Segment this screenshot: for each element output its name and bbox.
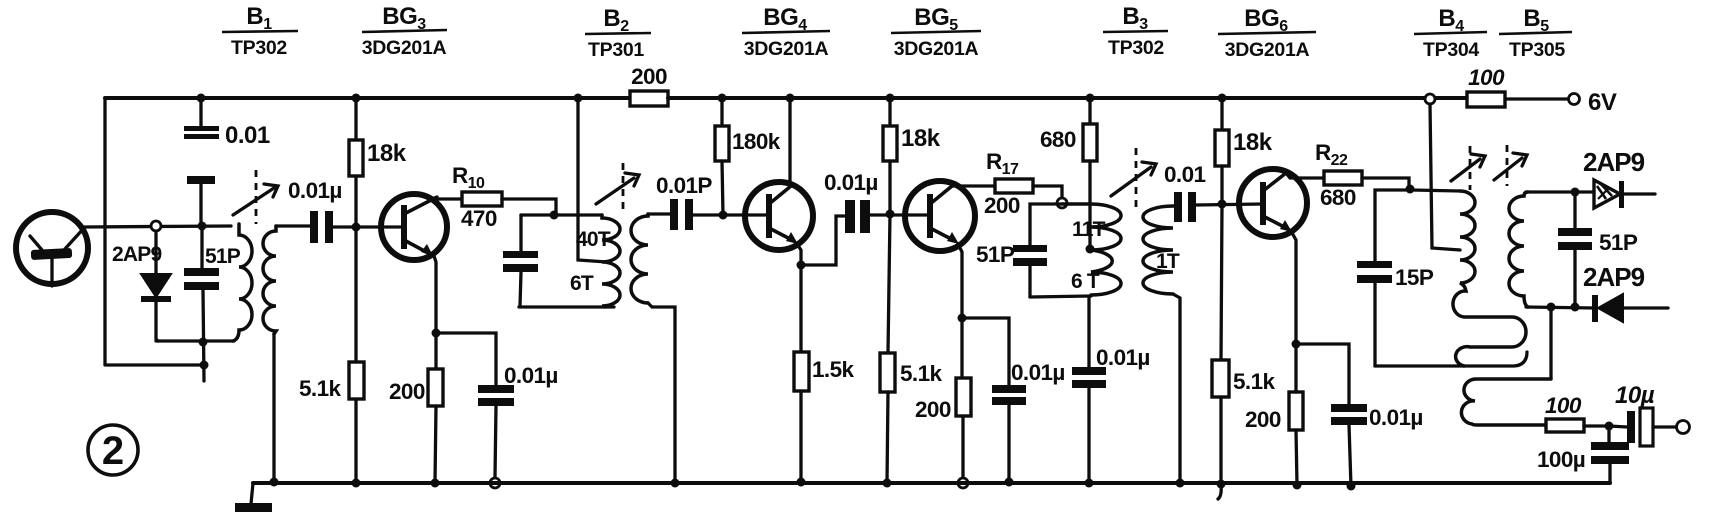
node rail 1090 bbox=[1086, 94, 1095, 103]
svg-text:3DG201A: 3DG201A bbox=[744, 38, 829, 60]
resistor R17 200 bbox=[984, 149, 1033, 218]
svg-text:18k: 18k bbox=[901, 125, 941, 152]
svg-text:6V: 6V bbox=[1588, 89, 1617, 116]
svg-text:6T: 6T bbox=[570, 272, 594, 295]
node B5 bottom bbox=[1547, 303, 1556, 312]
coil B5 secondary output curl bbox=[1461, 379, 1551, 425]
svg-text:TP302: TP302 bbox=[1108, 37, 1164, 59]
svg-text:0.01µ: 0.01µ bbox=[824, 170, 878, 195]
capacitor 0.01u (BG3 emitter bypass) bbox=[478, 363, 558, 477]
svg-text:200: 200 bbox=[631, 64, 667, 89]
node BG4 base bbox=[719, 211, 728, 220]
resistor 200 (series in rail) bbox=[630, 64, 668, 106]
svg-text:5.1k: 5.1k bbox=[299, 376, 341, 401]
svg-text:200: 200 bbox=[984, 193, 1020, 218]
node ground rail 1180 bbox=[1176, 479, 1185, 488]
capacitor 0.01u (BG6 emitter bypass) bbox=[1331, 404, 1423, 487]
svg-text:3DG201A: 3DG201A bbox=[362, 37, 447, 59]
capacitor 10u (output coupling) bbox=[1609, 382, 1690, 446]
node ground rail 1009 bbox=[1005, 478, 1014, 487]
capacitor 0.01 (top left) bbox=[184, 98, 270, 222]
node rail 578 bbox=[574, 94, 583, 103]
node ground rail 1089 bbox=[1085, 479, 1094, 488]
ground bbox=[235, 483, 272, 512]
svg-text:51P: 51P bbox=[205, 245, 241, 268]
trimmer arrow B5 bbox=[1494, 145, 1527, 186]
svg-text:1.5k: 1.5k bbox=[812, 357, 854, 382]
node rail 356 bbox=[352, 94, 361, 103]
wire top supply rail middle bbox=[668, 96, 1467, 100]
node BG5 emitter bbox=[958, 314, 967, 323]
svg-text:10µ: 10µ bbox=[1615, 382, 1655, 409]
svg-text:11T: 11T bbox=[1072, 218, 1106, 241]
wire BG6 collector to R22 bbox=[1286, 173, 1324, 178]
node rail 890 bbox=[886, 94, 895, 103]
wire B4 top lead bbox=[1412, 190, 1460, 191]
label BG6/3DG201A bbox=[1218, 5, 1316, 61]
node rail 201 bbox=[197, 94, 206, 103]
wire R10 to B2 top node bbox=[502, 199, 556, 214]
capacitor 15P bbox=[1357, 261, 1434, 366]
svg-text:0.01: 0.01 bbox=[225, 122, 270, 149]
wire B1 secondary bottom to ground rail bbox=[272, 334, 275, 481]
wire ground stub tail at 1221 bbox=[1218, 485, 1221, 499]
wire BG3 emitter down bbox=[434, 256, 436, 333]
svg-text:180k: 180k bbox=[732, 129, 781, 154]
node ground rail 435 bbox=[431, 479, 440, 488]
transformer B1 primary winding bbox=[233, 224, 252, 341]
resistor R22 680 bbox=[1315, 140, 1362, 210]
wire B3 primary bottom bbox=[1030, 296, 1091, 297]
svg-text:3DG201A: 3DG201A bbox=[1225, 39, 1310, 61]
node BG6 base bbox=[1218, 200, 1227, 209]
capacitor 0.01u (B3 bottom to ground) bbox=[1072, 297, 1150, 483]
resistor 5.1k (BG5 bias lower) bbox=[880, 214, 942, 483]
wire BG3 emitter branch bbox=[436, 333, 496, 386]
node ground rail 274 bbox=[270, 478, 279, 487]
svg-text:18k: 18k bbox=[367, 140, 407, 167]
svg-text:TP302: TP302 bbox=[231, 37, 287, 59]
resistor 680 (rail to B3 tap) bbox=[1040, 98, 1097, 249]
wire BG5 emitter branch bbox=[962, 318, 1009, 386]
capacitor 51P (left) bbox=[184, 226, 241, 381]
label BG3/3DG201A bbox=[362, 3, 447, 59]
node ground rail 675 bbox=[671, 479, 680, 488]
node ground rail 801 bbox=[797, 478, 806, 487]
node 204,343 bbox=[199, 338, 208, 347]
svg-text:0.01µ: 0.01µ bbox=[1369, 405, 1423, 430]
node detector bottom bbox=[1571, 303, 1580, 312]
svg-text:0.01µ: 0.01µ bbox=[1011, 360, 1065, 385]
wire top rail to 6V terminal bbox=[1505, 97, 1567, 100]
resistor 18k (BG5 bias upper) bbox=[883, 98, 941, 214]
node BG6 emitter bbox=[1292, 340, 1301, 349]
transistor BG5 bbox=[905, 181, 975, 251]
node BG4 emitter bbox=[797, 261, 806, 270]
node output bbox=[1605, 422, 1614, 431]
resistor 100 (series in rail) bbox=[1467, 65, 1505, 107]
resistor 5.1k (BG3 bias lower) bbox=[299, 227, 364, 483]
wire B5 bottom to detector bbox=[1526, 307, 1594, 308]
transistor BG4 bbox=[745, 182, 813, 250]
wire left bottom horizontal bbox=[105, 363, 204, 366]
label B3/TP302 bbox=[1103, 3, 1168, 59]
capacitor 51P (B3 tank) bbox=[976, 242, 1047, 297]
svg-text:TP304: TP304 bbox=[1423, 39, 1479, 61]
label B1/TP302 bbox=[222, 3, 298, 59]
svg-text:100µ: 100µ bbox=[1537, 447, 1585, 472]
trimmer arrow B3 bbox=[1111, 148, 1156, 212]
wire BG4 collector to rail bbox=[790, 98, 791, 186]
wire converter collector to B1 bbox=[84, 226, 231, 227]
wire rail tap to B2 tap bbox=[578, 98, 607, 262]
trimmer arrow B4 bbox=[1451, 146, 1485, 190]
transistor BG6 bbox=[1239, 169, 1307, 237]
node BG3 base bbox=[352, 223, 361, 232]
wire BG6 emitter down bbox=[1291, 231, 1296, 344]
svg-text:2AP9: 2AP9 bbox=[112, 243, 161, 266]
svg-text:0.01P: 0.01P bbox=[656, 173, 712, 198]
transformer B2 primary winding 40T/6T bbox=[602, 215, 620, 307]
wire BG4 emitter to coupling cap bbox=[801, 216, 845, 265]
svg-text:51P: 51P bbox=[976, 242, 1015, 267]
svg-text:TP301: TP301 bbox=[588, 39, 644, 61]
node 204,365 bbox=[200, 361, 209, 370]
resistor 1.5k (BG4 emitter) bbox=[794, 265, 854, 482]
capacitor 0.01 (B3 to BG6) bbox=[1164, 162, 1263, 222]
wire B2 top node bbox=[521, 213, 602, 216]
resistor 18k (BG6 bias upper) bbox=[1215, 98, 1273, 205]
transistor BG1 converter (left, scribbled) bbox=[16, 212, 88, 286]
capacitor 51P (detector) bbox=[1558, 192, 1638, 307]
wire B5 top to detector bbox=[1526, 190, 1594, 193]
resistor 200 (BG6 emitter) bbox=[1245, 344, 1303, 485]
svg-text:3DG201A: 3DG201A bbox=[894, 38, 979, 60]
svg-text:2AP9: 2AP9 bbox=[1583, 262, 1645, 292]
svg-text:0.01µ: 0.01µ bbox=[1096, 345, 1150, 370]
node rail x105 corner / wire left vertical bbox=[103, 98, 106, 364]
wire B3 primary top bbox=[1030, 204, 1062, 246]
label BG4/3DG201A bbox=[742, 4, 830, 60]
wire B4 node to 15P branch bbox=[1375, 190, 1409, 262]
node ground rail 1297 bbox=[1293, 481, 1302, 490]
transistor BG3 bbox=[381, 194, 447, 260]
svg-text:200: 200 bbox=[915, 397, 951, 422]
wire bottom ground rail bbox=[253, 481, 1610, 485]
figure badge 2 bbox=[88, 425, 138, 475]
capacitor 0.01P (B2 to BG4) bbox=[648, 173, 769, 230]
node B3 top (open) bbox=[1057, 198, 1067, 208]
wire 2T bottom to ground rail bbox=[648, 303, 675, 483]
svg-text:200: 200 bbox=[1245, 407, 1281, 432]
capacitor B2 bypass bbox=[503, 215, 538, 306]
resistor 18k (BG3 bias upper) bbox=[349, 98, 407, 227]
wire BG5 emitter down bbox=[958, 244, 962, 318]
wire rail tap to B4 winding tap bbox=[1430, 104, 1460, 250]
node B3 tap bbox=[1086, 245, 1095, 254]
svg-text:2: 2 bbox=[102, 429, 124, 473]
trimmer arrow B1 bbox=[233, 170, 278, 224]
svg-text:18k: 18k bbox=[1233, 129, 1273, 156]
svg-text:680: 680 bbox=[1040, 127, 1076, 152]
capacitor 0.01u (BG4 to BG5) bbox=[824, 170, 930, 233]
transformer B3 primary winding 11T/6T bbox=[1062, 204, 1121, 296]
transformer B4 primary winding bbox=[1453, 191, 1526, 366]
terminal 6V bbox=[1569, 89, 1617, 116]
svg-text:TP305: TP305 bbox=[1509, 39, 1565, 61]
diode 2AP9 (left) bbox=[112, 231, 171, 341]
wire B2 bottom bus bbox=[519, 305, 614, 308]
node rail 722 bbox=[718, 94, 727, 103]
svg-text:0.01µ: 0.01µ bbox=[288, 178, 342, 203]
svg-text:100: 100 bbox=[1545, 393, 1582, 418]
node 202 bbox=[198, 222, 207, 231]
svg-text:470: 470 bbox=[461, 206, 497, 231]
wire BG4 emitter down bbox=[797, 244, 801, 265]
svg-text:51P: 51P bbox=[1599, 230, 1638, 255]
resistor 200 (BG5 emitter) bbox=[915, 318, 971, 477]
svg-text:5.1k: 5.1k bbox=[900, 361, 942, 386]
diode 2AP9 (detector bottom) bbox=[1583, 262, 1668, 322]
wire B5 output down bbox=[1549, 307, 1552, 378]
wire 2AP9/51P bottom bus bbox=[156, 339, 234, 342]
node ground rail 356 bbox=[352, 479, 361, 488]
capacitor 0.01u (BG5 emitter bypass) bbox=[992, 360, 1065, 482]
svg-text:1T: 1T bbox=[1156, 250, 1180, 273]
label B2/TP301 bbox=[585, 5, 651, 61]
node detector top bbox=[1571, 188, 1580, 197]
svg-text:0.01: 0.01 bbox=[1164, 162, 1205, 187]
resistor 5.1k (BG6 bias lower) bbox=[1212, 205, 1275, 484]
svg-text:100: 100 bbox=[1468, 65, 1505, 90]
node rail 1430 (open) bbox=[1425, 94, 1435, 104]
resistor 180k (BG4 bias) bbox=[715, 98, 781, 215]
resistor R10 470 bbox=[437, 163, 502, 231]
wire 100 to output node bbox=[1584, 424, 1605, 427]
label BG5/3DG201A bbox=[891, 4, 981, 60]
wire BG6 emitter branch bbox=[1296, 344, 1349, 404]
svg-text:5.1k: 5.1k bbox=[1233, 369, 1275, 394]
transformer B3 secondary winding 1T bbox=[1143, 206, 1173, 294]
resistor 200 (BG3 emitter) bbox=[389, 333, 443, 483]
node rail open 963 bbox=[958, 478, 968, 488]
resistor 100 (output) bbox=[1545, 393, 1584, 432]
svg-text:6 T: 6 T bbox=[1071, 270, 1100, 293]
node ground rail 1351 bbox=[1347, 482, 1356, 491]
wire R22 to B4 top node bbox=[1362, 178, 1409, 189]
label B5/TP305 bbox=[1499, 5, 1572, 61]
node rail open 495 bbox=[490, 478, 500, 488]
svg-text:40T: 40T bbox=[576, 228, 611, 251]
svg-text:200: 200 bbox=[389, 379, 425, 404]
wire 1T bottom to ground rail bbox=[1173, 294, 1180, 483]
node ground rail 1221 bbox=[1217, 480, 1226, 489]
node rail 1222 bbox=[1218, 94, 1227, 103]
trimmer arrow B2 bbox=[596, 163, 639, 211]
node rail 790 bbox=[786, 94, 795, 103]
transformer B2 secondary winding 2T bbox=[631, 214, 648, 303]
node BG5 base bbox=[886, 210, 895, 219]
wire top supply rail left bbox=[105, 96, 630, 100]
node B4 top bbox=[1406, 185, 1415, 194]
svg-text:680: 680 bbox=[1320, 185, 1356, 210]
svg-text:15P: 15P bbox=[1395, 265, 1434, 290]
wire BG5 collector to R17 bbox=[952, 184, 995, 187]
transformer B1 secondary winding bbox=[263, 226, 276, 334]
wire B4 tank bottom (15P return) bbox=[1375, 352, 1527, 366]
wire R17 to B3 top bbox=[1033, 186, 1062, 199]
node 156 (open) bbox=[151, 221, 161, 231]
node B2 primary top bbox=[550, 211, 559, 220]
label B4/TP304 bbox=[1414, 5, 1487, 61]
svg-text:0.01µ: 0.01µ bbox=[504, 363, 558, 388]
transformer B5 winding bbox=[1509, 192, 1528, 307]
capacitor 100u (filter) bbox=[1537, 426, 1629, 483]
capacitor 0.01u (B1 to BG3) bbox=[276, 178, 381, 243]
diode 2AP9 (detector top) bbox=[1583, 147, 1655, 208]
svg-text:2AP9: 2AP9 bbox=[1583, 147, 1645, 177]
node ground rail 887 bbox=[883, 479, 892, 488]
node BG3 emitter junction bbox=[432, 329, 441, 338]
